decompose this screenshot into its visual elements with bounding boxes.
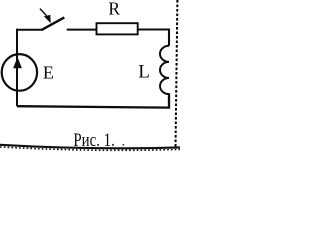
svg-text:E: E [43, 63, 54, 83]
svg-text:R: R [108, 0, 120, 19]
svg-text:Рис. 1.: Рис. 1. [73, 131, 114, 151]
svg-text:L: L [138, 62, 150, 83]
